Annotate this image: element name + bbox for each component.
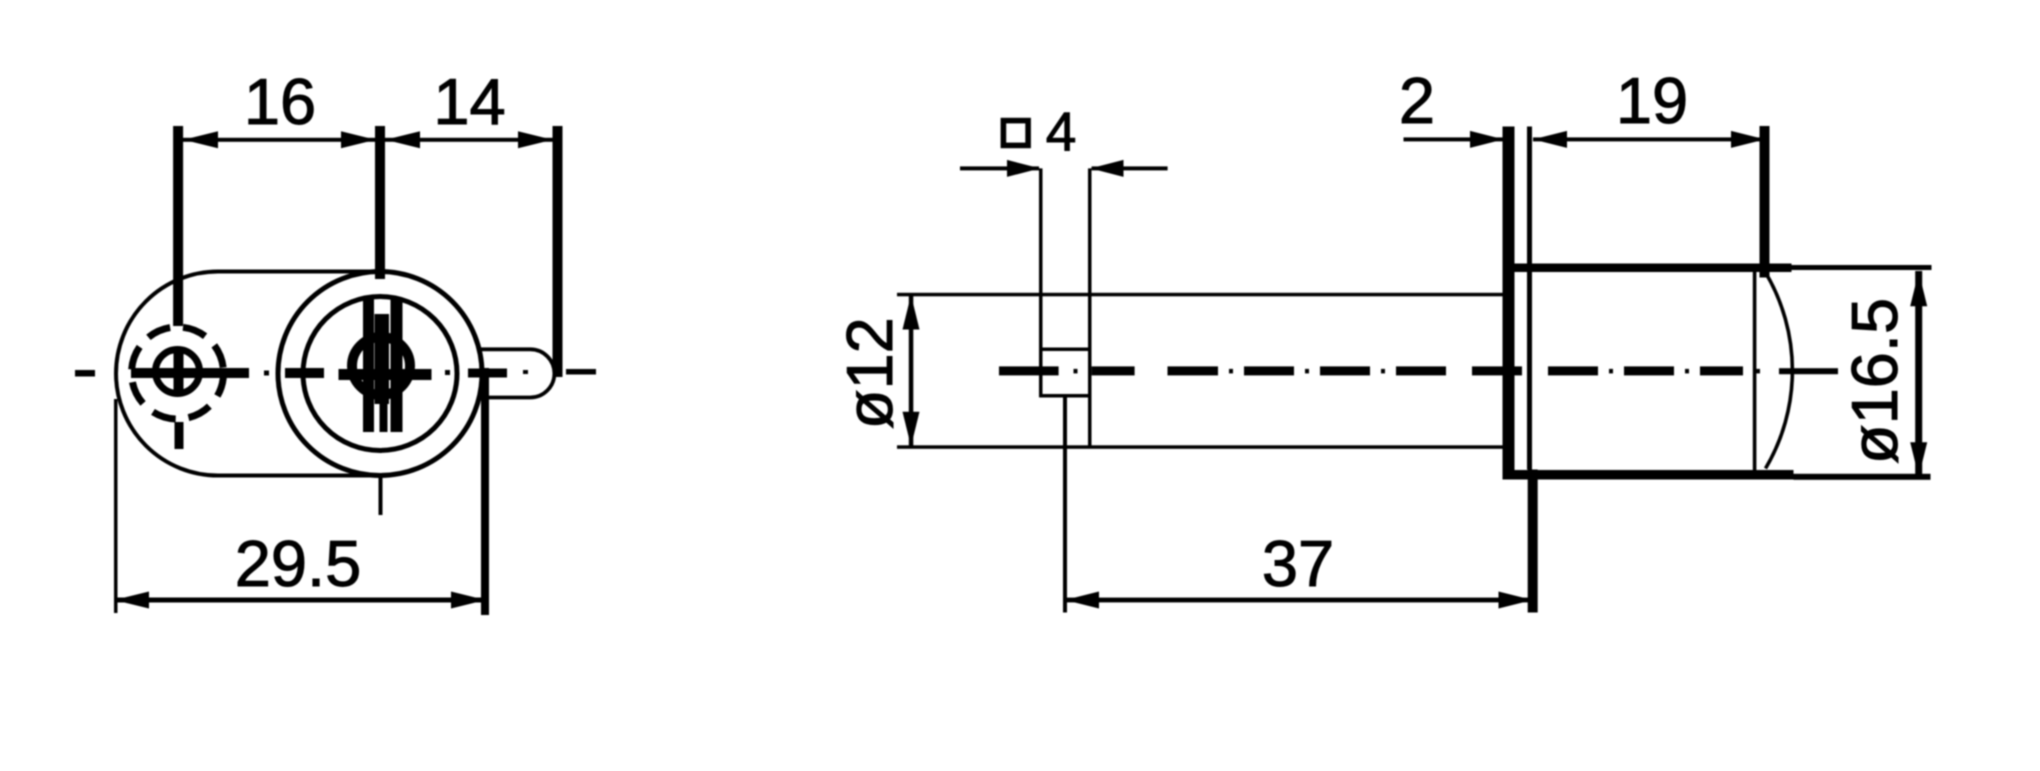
svg-text:ø16.5: ø16.5 [1838, 298, 1911, 464]
extension line right of dim 19 [1760, 126, 1770, 278]
svg-text:16: 16 [244, 65, 316, 138]
centerline dot [1381, 369, 1385, 374]
svg-text:ø12: ø12 [833, 317, 906, 429]
square pin right side / extension line [1088, 168, 1092, 447]
horizontal centerline left tail dash [75, 370, 95, 377]
arrowhead left of dim 29.5 [115, 592, 150, 609]
vertical centerline below mounting hole [175, 422, 184, 449]
svg-text:14: 14 [433, 65, 505, 138]
centerline dot [523, 370, 528, 374]
side view centerline dash 10 [1700, 366, 1743, 375]
front view: mounting hole solid circle [156, 350, 200, 394]
side view: body top edge [897, 293, 1503, 297]
square pin top edge [1040, 348, 1090, 352]
front view: cylinder housing outer circle [278, 272, 482, 476]
dimension line diameter16.5 [1915, 271, 1922, 477]
arrowhead up of dia16.5 [1910, 272, 1927, 307]
square pin bottom edge [1040, 394, 1090, 398]
centerline dot [1685, 369, 1689, 374]
extension line left of dim 29.5 [114, 399, 118, 613]
dimension line square4 right segment [1092, 166, 1168, 170]
centerline dot [1074, 369, 1078, 374]
side view centerline dash 7 [1472, 366, 1522, 375]
keyway left bar [363, 299, 374, 432]
vertical centerline below cylinder [379, 477, 383, 515]
side view centerline dash 5 [1320, 366, 1370, 375]
vertical centerline / extension line of mounting hole [173, 126, 183, 326]
side view: body bottom edge [897, 445, 1503, 449]
svg-text:19: 19 [1616, 64, 1688, 137]
front view: plug inner circle [303, 297, 457, 451]
dimension line 19 [1533, 137, 1765, 141]
arrowhead left-pointing of square4 [1091, 160, 1124, 177]
rear cylinder top edge thick [1509, 264, 1792, 273]
side view centerline dash 1 [999, 366, 1059, 375]
dimension line 2 left segment [1404, 137, 1504, 141]
centerline dot [264, 371, 269, 376]
vertical centerline / extension line of cylinder [375, 126, 385, 279]
dimension line 14 [380, 138, 558, 142]
extension line right of dim 14 [553, 126, 563, 377]
arrowhead right of dim 19 [1731, 131, 1765, 148]
square pin left side / extension line [1039, 168, 1043, 397]
horizontal centerline dash right of keyway [468, 369, 507, 378]
arrowhead right of dim 29.5 [451, 592, 486, 609]
arrowhead left of dim 37 [1065, 592, 1099, 609]
side view centerline dash 3 [1168, 366, 1219, 375]
horizontal centerline thin right tail [566, 369, 596, 375]
centerline dot [1305, 369, 1309, 374]
keyway ring [352, 337, 410, 395]
keyway middle bottom stripe [380, 404, 388, 432]
svg-text:2: 2 [1399, 64, 1435, 137]
keyway right bar [391, 299, 403, 432]
square symbol of dim square4 [1003, 121, 1028, 146]
dimension line square4 left segment [960, 166, 1039, 170]
vertical centerline cross bar mounting hole [174, 348, 184, 392]
dimension line 16 [178, 138, 380, 142]
arrowhead left of dim 19 [1533, 131, 1567, 148]
arrowhead right of dim 37 [1499, 592, 1533, 609]
extension line top of dia16.5 [1792, 265, 1932, 270]
side view centerline thin tail [1779, 368, 1838, 374]
extension line right of dim 29.5 [481, 368, 489, 615]
side view centerline dash 6 [1396, 366, 1446, 375]
side view centerline dash 2 [1092, 366, 1135, 375]
front view: latch pin tip outline [478, 349, 554, 397]
dimension line diameter12 [909, 295, 914, 447]
svg-text:4: 4 [1046, 101, 1077, 163]
front view: hidden mounting hole dashed circle [132, 327, 224, 419]
horizontal centerline dash through mounting hole [131, 368, 249, 378]
arrowhead down of dia12 [903, 412, 920, 447]
rear cylinder dome rim line [1753, 270, 1757, 472]
dimension line 37 [1065, 598, 1533, 603]
dimension line 29.5 [114, 598, 486, 603]
horizontal centerline dash through keyway [339, 369, 432, 380]
arrowhead right of dim 16 [341, 131, 376, 148]
keyway middle block [375, 314, 390, 404]
rear cylinder dome arc [1766, 273, 1793, 469]
arrowhead right-pointing of dim 2 [1470, 131, 1504, 148]
horizontal centerline dash [285, 368, 324, 378]
svg-text:29.5: 29.5 [235, 527, 362, 600]
side view centerline dash 4 [1244, 366, 1294, 375]
flange left thick line [1503, 127, 1515, 478]
extension line left of dim 37 [1063, 398, 1067, 613]
flange right thin line [1527, 127, 1532, 470]
side view centerline dash 9 [1624, 366, 1674, 375]
side view centerline dash 8 [1548, 366, 1598, 375]
front view: lock body stadium outline [116, 272, 380, 476]
arrowhead left of dim 16 [184, 131, 219, 148]
svg-text:37: 37 [1262, 527, 1334, 600]
arrowhead down of dia16.5 [1910, 442, 1927, 477]
centerline dot [1756, 369, 1760, 374]
centerline dot [1229, 369, 1233, 374]
extension line right of dim 37 [1528, 470, 1538, 613]
arrowhead right-pointing of square4 [1007, 160, 1040, 177]
centerline dot [1609, 369, 1613, 374]
rear cylinder bottom edge thick [1503, 470, 1794, 480]
arrowhead up of dia12 [903, 295, 920, 330]
arrowhead right of dim 14 [518, 131, 553, 148]
arrowhead left of dim 14 [386, 131, 421, 148]
centerline dot [445, 370, 450, 375]
extension line bottom of dia16.5 [1794, 474, 1931, 480]
